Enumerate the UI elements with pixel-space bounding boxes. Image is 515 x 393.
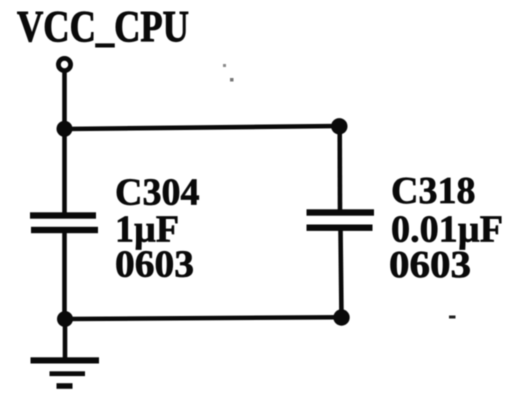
node: top-right junction xyxy=(331,118,347,134)
net label VCC_CPU xyxy=(17,2,189,51)
svg-text:C318: C318 xyxy=(391,170,475,212)
node: bottom-left junction xyxy=(57,311,73,327)
scan speck near top center xyxy=(223,64,234,82)
node: top-left junction xyxy=(57,121,73,137)
capacitor C304 xyxy=(30,212,98,233)
label C304 value 1uF size 0603 xyxy=(115,172,199,286)
node: bottom-right junction xyxy=(333,309,349,325)
capacitor C318 xyxy=(307,209,375,231)
wire: C318 bottom plate down to bottom-right node xyxy=(341,229,342,318)
wire: C304 bottom plate down to bottom-left node xyxy=(62,232,67,319)
ground symbol xyxy=(31,357,100,389)
label C318 value 0.01uF size 0603 xyxy=(389,170,503,286)
wire: bottom-left node down to ground xyxy=(63,319,68,362)
terminal open circle (VCC_CPU port) xyxy=(58,58,70,70)
svg-text:0603: 0603 xyxy=(115,244,194,286)
wire: top-left node down to C304 top plate xyxy=(62,128,67,213)
scan speck dash below C318 labels xyxy=(449,316,456,319)
svg-text:0603: 0603 xyxy=(389,244,471,286)
wire: top rail (left junction to right junction) xyxy=(64,126,339,129)
wire: top-right node down to C318 top plate xyxy=(337,126,342,211)
wire: terminal down to top-left node xyxy=(62,71,67,128)
svg-text:C304: C304 xyxy=(115,172,199,214)
wire: bottom rail (left junction to right junction) xyxy=(65,317,342,319)
svg-text:VCC_CPU: VCC_CPU xyxy=(17,2,189,51)
